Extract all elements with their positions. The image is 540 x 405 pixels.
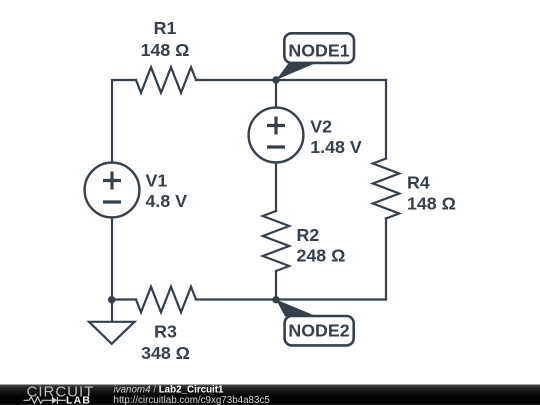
wire: V2 bottom to R2 xyxy=(275,163,277,212)
callout NODE1 xyxy=(276,33,354,80)
svg-text:NODE1: NODE1 xyxy=(288,41,349,61)
svg-text:4.8 V: 4.8 V xyxy=(146,191,188,211)
wire: R2 to node NODE2 xyxy=(275,271,277,300)
wire: right vertical upper segment xyxy=(385,80,387,159)
resistor R1 xyxy=(136,67,196,93)
wire: bottom-left node up to V1 bottom xyxy=(111,218,113,300)
wire: ground stub xyxy=(111,300,113,322)
wire: V1 top to top-left corner to R1 xyxy=(112,80,136,163)
wire: bottom-right corner to node NODE2 xyxy=(276,298,386,300)
svg-text:1.48 V: 1.48 V xyxy=(310,137,362,157)
wire: NODE1 down to V2 top xyxy=(275,80,277,108)
svg-text:348 Ω: 348 Ω xyxy=(141,343,190,363)
CircuitLab logo resistor squiggle and diode xyxy=(24,397,67,404)
wire: R3 to bottom-left node xyxy=(112,298,136,300)
svg-text:R2: R2 xyxy=(297,225,320,245)
svg-text:http://circuitlab.com/c9xg73b4: http://circuitlab.com/c9xg73b4a83c5 xyxy=(114,395,271,405)
svg-text:148 Ω: 148 Ω xyxy=(407,194,456,214)
voltage source V2 xyxy=(249,108,304,163)
wire: R1 to node NODE1 to top-right corner xyxy=(196,79,386,81)
svg-text:R3: R3 xyxy=(154,322,177,342)
svg-text:LAB: LAB xyxy=(66,395,91,405)
node junction dot NODE1 xyxy=(272,76,279,83)
node junction dot NODE2 xyxy=(272,296,279,303)
wire: node NODE2 to R3 xyxy=(196,298,276,300)
svg-text:R4: R4 xyxy=(407,173,430,193)
ground xyxy=(89,322,135,344)
svg-text:NODE2: NODE2 xyxy=(288,321,349,341)
svg-text:248 Ω: 248 Ω xyxy=(297,246,346,266)
svg-text:V2: V2 xyxy=(310,117,332,137)
voltage source V1 xyxy=(85,163,140,218)
callout NODE2 xyxy=(276,300,354,346)
resistor R3 xyxy=(136,287,196,313)
resistor R4 xyxy=(373,159,399,219)
resistor R2 xyxy=(263,211,289,271)
wire: right vertical lower segment to bottom-right corner xyxy=(385,219,387,300)
svg-text:148 Ω: 148 Ω xyxy=(141,40,190,60)
svg-text:V1: V1 xyxy=(146,170,168,190)
node junction dot bottom-left xyxy=(108,296,115,303)
svg-text:R1: R1 xyxy=(154,18,177,38)
